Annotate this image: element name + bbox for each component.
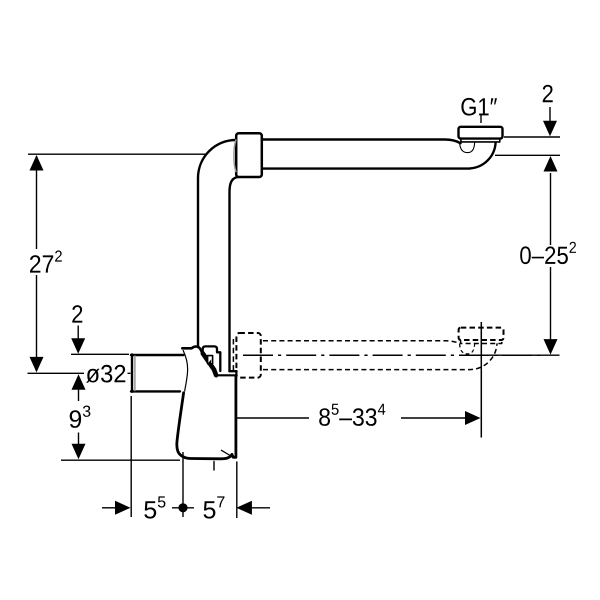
leader line G1 [480, 114, 482, 123]
label 5-5 [144, 496, 165, 518]
dimension line 5-5/5-7 horizontal lead-in left [102, 507, 116, 509]
tick line left centre level (interrupted by text) [28, 372, 131, 374]
arrow up 9-3 top [72, 374, 86, 390]
dashed flange plate [461, 340, 502, 343]
compression nut on elbow [236, 133, 262, 177]
arrow right 8-5/33-4 [465, 411, 481, 425]
label 9 cubed [70, 406, 91, 428]
dot between 5-5 and 5-7 [178, 503, 187, 512]
trap shoulder with bump [182, 346, 202, 352]
trap body upper-left thin contour [183, 351, 187, 392]
dimension line 2 left vertical [77, 326, 79, 340]
dash-dot centre line of outlet pipe [243, 354, 545, 356]
arrow up 27-2 top [30, 155, 44, 171]
arrow down 2 right [543, 121, 557, 137]
dashed pipe end cap at trap outlet [232, 339, 234, 371]
inlet pipe top edge [131, 354, 184, 356]
pipe end outer curve into flange [470, 143, 496, 169]
clip button shadow triangle [208, 359, 211, 363]
dashed pipe bottom edge and end curve [263, 343, 497, 369]
elbow outer curve and vertical pipe left edge [198, 140, 236, 347]
arrow down 9-3 bottom [72, 444, 86, 460]
dashed pipe top edge with dip [263, 341, 461, 344]
latch wedge band [203, 353, 216, 375]
arrow down 27-2 bottom [30, 357, 44, 373]
dimension line 5-7 lead-out right [250, 507, 270, 509]
arrow right 5-5 [115, 501, 131, 515]
dashed alternate-position outlet pipe [233, 328, 503, 378]
label 5-7 [204, 496, 225, 518]
outlet ledge lower [216, 374, 237, 376]
extension line dashed flange centre [480, 322, 482, 438]
clip release button rectangle [208, 356, 213, 364]
dashed mouth inner curve [460, 344, 475, 354]
elbow inner curve and vertical pipe right edge [230, 177, 241, 371]
label 0-25 squared [520, 242, 576, 264]
trap cup body outline (left, bottom, right) [177, 376, 236, 459]
arrow down 0-25 bottom [544, 339, 558, 355]
tick line right upper (pipe top level) [504, 136, 560, 138]
tick line bottom of trap [61, 459, 180, 461]
clip housing top bar with right step [203, 346, 221, 371]
outlet ledge right joint [235, 371, 237, 375]
arrow down 2 left [71, 338, 85, 354]
label 2 right [543, 85, 553, 103]
extension line below trap right [236, 462, 238, 519]
trap bottom thin diagonal [221, 450, 231, 456]
dimension line 9-3 vertical [78, 390, 80, 445]
arrow left 5-7 [236, 501, 252, 515]
horizontal outlet pipe bottom edge [262, 167, 470, 169]
dimension line 8-5/33-4 horizontal [237, 417, 466, 419]
dashed wall connector flange [459, 328, 504, 340]
extension line below trap centre [182, 452, 184, 517]
label 8-5 to 33-4 [319, 404, 385, 426]
label diameter 32 [86, 365, 125, 383]
dashed compression nut [236, 333, 260, 378]
pipe mouth inner curve (thin) [460, 143, 475, 153]
label 2 left [72, 305, 82, 323]
label 27 squared [30, 250, 62, 272]
olive / pipe end visible at nut left (thin double curve) [234, 140, 236, 172]
trap bottom small tick [213, 462, 215, 471]
dimension line 27-2 vertical [36, 156, 38, 371]
tick line left pipe-top level [71, 353, 129, 355]
inlet pipe end cap inner thin line [134, 356, 136, 391]
inlet pipe left end cap [131, 354, 133, 391]
dimension line through dot [172, 507, 194, 509]
label G1 inch [461, 98, 497, 116]
tick line right lower (pipe bottom level) [495, 154, 560, 156]
wall flange plate under flange [461, 138, 500, 142]
dimension line 0-25 vertical [550, 173, 552, 340]
inlet pipe bottom edge [131, 390, 180, 392]
outlet ledge upper [230, 370, 237, 372]
tick line top (level of pipe bottom at elbow) [28, 153, 206, 155]
arrow up 0-25 top [544, 156, 558, 172]
horizontal outlet pipe top edge with dip under flange [262, 140, 461, 144]
tick line for 0-25 bottom / centre level [476, 354, 560, 356]
dimension line 2 right vertical [549, 107, 551, 122]
extension line below inlet pipe [130, 396, 132, 517]
wall connector flange G1 [459, 127, 503, 139]
